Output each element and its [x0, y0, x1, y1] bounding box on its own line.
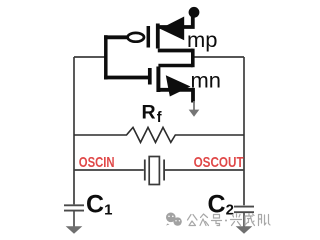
node gate junction bar — [104, 35, 108, 79]
crystal X1 left plate — [144, 160, 146, 181]
crystal X1 body — [149, 157, 159, 185]
wire output node OSCOUT vertical — [243, 57, 245, 205]
transistor Q mp source arrow — [160, 17, 184, 41]
transistor Q mn channel bar — [156, 67, 160, 93]
众 — [200, 214, 209, 226]
wire crystal row left — [74, 169, 144, 171]
svg-text:OSCIN: OSCIN — [79, 154, 115, 171]
transistor Q mp (PMOS) gate stub — [104, 35, 127, 39]
transistor Q mn (NMOS) drain leg — [158, 64, 192, 68]
wire input node OSCIN vertical — [73, 57, 75, 204]
transistor Q mn gate wire — [104, 76, 148, 80]
ground arrow below mn — [189, 101, 200, 117]
transistor Q mn gate bar — [148, 68, 152, 85]
svg-text:mp: mp — [187, 29, 218, 52]
watermark wechat icon — [166, 213, 182, 226]
威 — [245, 214, 255, 226]
svg-text:mn: mn — [191, 70, 222, 93]
watermark text 公众号·兴威帆 (drawn strokes) — [188, 214, 271, 226]
capacitor C2 — [234, 207, 254, 227]
svg-text:OSCOUT: OSCOUT — [194, 154, 244, 171]
transistor Q mp drain leg — [158, 49, 193, 53]
兴 — [231, 214, 242, 226]
ground arrow below C1 — [66, 226, 83, 234]
transistor Q mp gate bubble — [128, 33, 144, 42]
wire gate input horizontal — [74, 56, 105, 58]
transistor Q mn source arrow — [166, 75, 191, 96]
power node dot VDD — [189, 7, 200, 18]
wire crystal row right — [165, 169, 244, 171]
transistor Q mp gate bar — [147, 26, 151, 48]
resistor Rf with wire row — [74, 127, 244, 142]
wire output node horizontal — [195, 56, 245, 58]
号 — [212, 215, 222, 226]
transistor Q mp source leg — [158, 16, 193, 27]
crystal X1 right plate — [163, 160, 165, 181]
公 — [188, 215, 198, 226]
帆 — [259, 215, 271, 226]
transistor Q mp channel bar — [156, 24, 160, 49]
capacitor C1 — [64, 205, 84, 227]
transistor Q mn source leg — [158, 90, 193, 103]
· — [225, 220, 227, 222]
ground arrow below C2 — [236, 226, 253, 234]
wire drain junction vertical — [191, 49, 195, 68]
